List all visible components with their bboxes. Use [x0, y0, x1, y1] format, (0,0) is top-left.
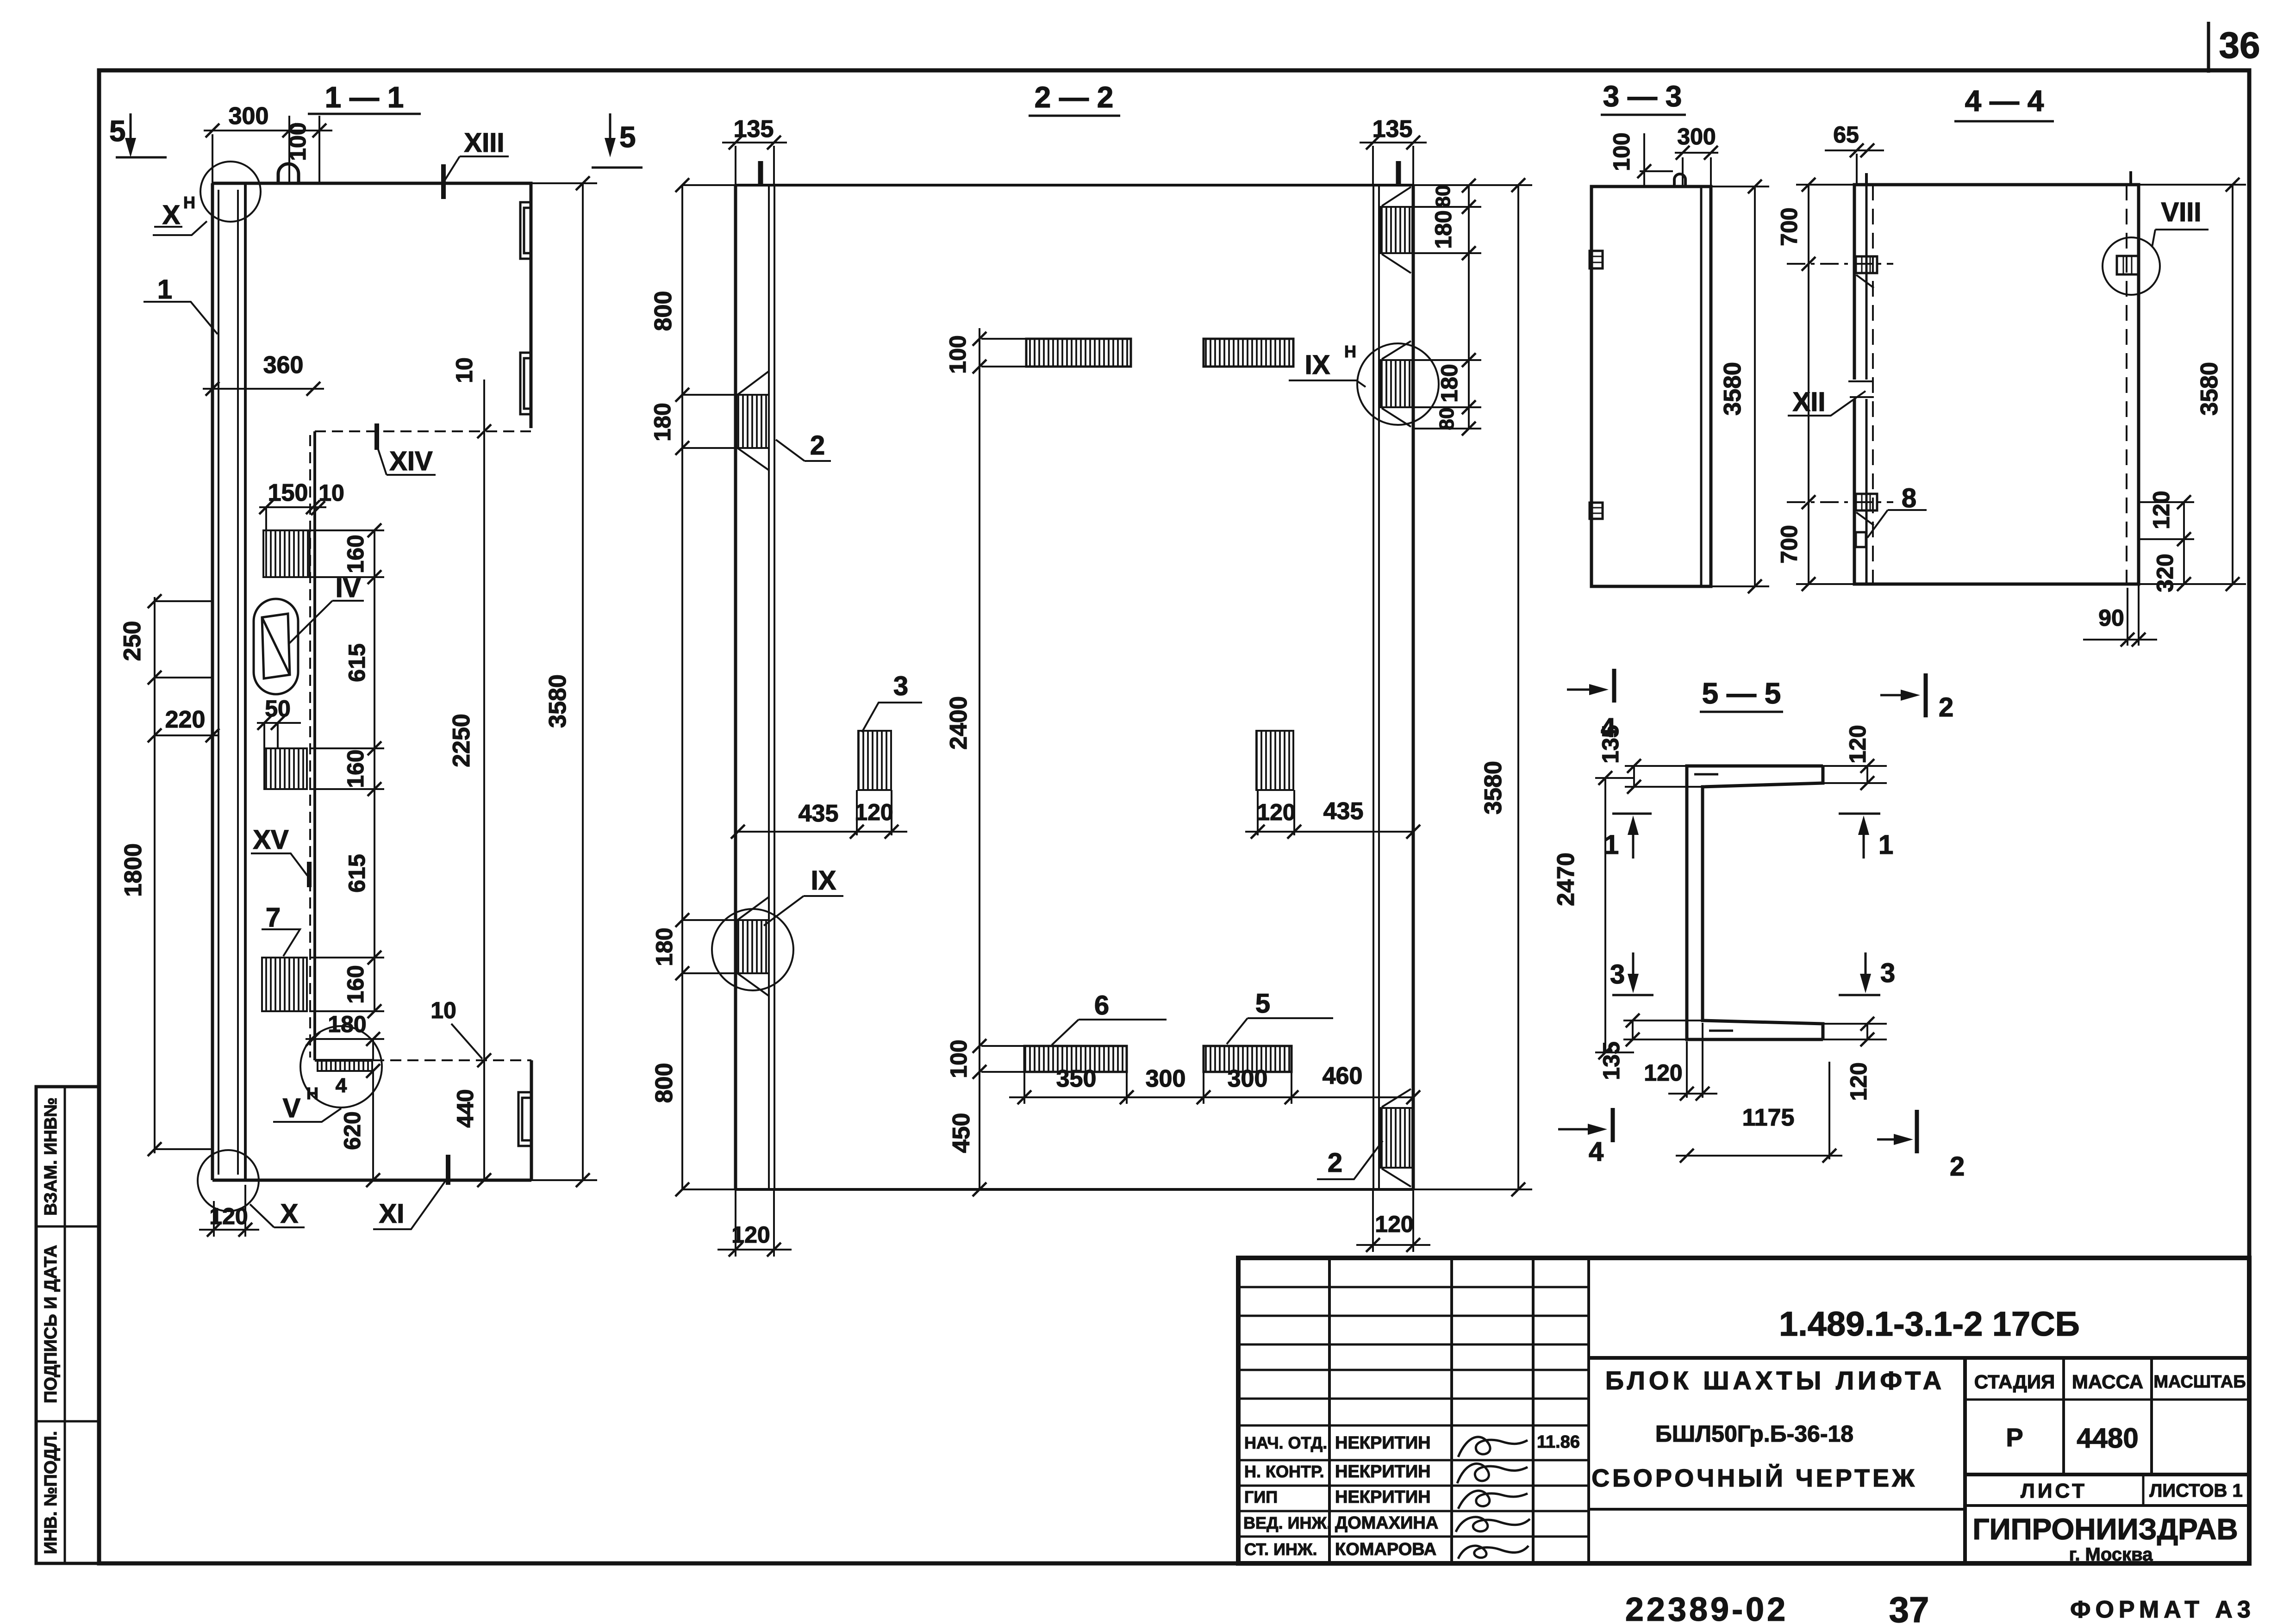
svg-text:10: 10: [430, 997, 456, 1023]
svg-text:IX: IX: [1305, 350, 1330, 380]
svg-text:XIV: XIV: [389, 446, 433, 476]
svg-text:10: 10: [318, 480, 344, 506]
svg-text:5: 5: [619, 120, 636, 154]
svg-text:435: 435: [1323, 798, 1364, 825]
svg-text:2400: 2400: [945, 696, 972, 750]
svg-text:СТАДИЯ: СТАДИЯ: [1974, 1371, 2055, 1393]
svg-text:6: 6: [1094, 990, 1109, 1020]
svg-text:80: 80: [1435, 408, 1458, 430]
svg-text:1175: 1175: [1742, 1104, 1795, 1131]
svg-text:2470: 2470: [1553, 852, 1579, 906]
svg-text:120: 120: [209, 1203, 248, 1229]
svg-text:120: 120: [731, 1222, 770, 1248]
svg-text:100: 100: [946, 1039, 972, 1078]
svg-text:300: 300: [1228, 1065, 1268, 1092]
svg-text:320: 320: [2152, 554, 2178, 592]
svg-text:37: 37: [1889, 1589, 1929, 1624]
svg-text:5: 5: [109, 114, 126, 148]
svg-text:120: 120: [1375, 1211, 1413, 1237]
svg-text:XI: XI: [379, 1199, 405, 1229]
svg-text:3 — 3: 3 — 3: [1603, 80, 1682, 113]
svg-text:100: 100: [1609, 132, 1635, 171]
svg-text:5 — 5: 5 — 5: [1702, 677, 1781, 710]
svg-text:7: 7: [266, 902, 281, 933]
svg-text:2 — 2: 2 — 2: [1035, 81, 1114, 114]
svg-text:350: 350: [1056, 1065, 1097, 1092]
svg-text:2: 2: [1939, 692, 1953, 722]
svg-text:460: 460: [1323, 1063, 1363, 1089]
svg-text:НЕКРИТИН: НЕКРИТИН: [1335, 1487, 1431, 1507]
svg-text:700: 700: [1776, 207, 1802, 246]
svg-text:180: 180: [328, 1011, 366, 1037]
svg-text:2: 2: [1328, 1148, 1342, 1178]
svg-text:50: 50: [265, 696, 291, 722]
svg-text:4: 4: [1601, 713, 1616, 743]
svg-text:ГИПРОНИИЗДРАВ: ГИПРОНИИЗДРАВ: [1972, 1512, 2238, 1546]
svg-text:800: 800: [650, 291, 677, 331]
svg-text:VIII: VIII: [2161, 197, 2201, 227]
svg-text:СТ. ИНЖ.: СТ. ИНЖ.: [1244, 1540, 1317, 1559]
svg-text:615: 615: [344, 854, 370, 892]
svg-text:360: 360: [263, 352, 304, 379]
svg-text:Н: Н: [183, 193, 195, 212]
svg-text:150: 150: [268, 479, 308, 506]
svg-text:V: V: [283, 1093, 301, 1123]
svg-text:НЕКРИТИН: НЕКРИТИН: [1335, 1462, 1431, 1481]
svg-text:СБОРОЧНЫЙ ЧЕРТЕЖ: СБОРОЧНЫЙ ЧЕРТЕЖ: [1591, 1464, 1917, 1492]
svg-text:X: X: [281, 1199, 299, 1229]
svg-text:НАЧ. ОТД.: НАЧ. ОТД.: [1244, 1433, 1327, 1452]
svg-text:4: 4: [336, 1074, 347, 1097]
svg-text:160: 160: [343, 535, 368, 573]
svg-text:100: 100: [945, 335, 971, 373]
svg-text:440: 440: [452, 1089, 478, 1127]
svg-text:IX: IX: [811, 865, 836, 896]
svg-text:300: 300: [1677, 124, 1716, 149]
svg-text:БШЛ50Гр.Б-36-18: БШЛ50Гр.Б-36-18: [1655, 1421, 1853, 1447]
svg-text:1800: 1800: [120, 843, 147, 897]
svg-text:3580: 3580: [2196, 362, 2223, 416]
svg-text:г. Москва: г. Москва: [2069, 1544, 2153, 1565]
svg-text:2250: 2250: [448, 714, 475, 767]
svg-text:36: 36: [2219, 25, 2260, 66]
svg-text:X: X: [162, 200, 181, 230]
svg-text:22389-02: 22389-02: [1625, 1591, 1788, 1624]
svg-text:ПОДПИСЬ И ДАТА: ПОДПИСЬ И ДАТА: [41, 1245, 61, 1403]
svg-text:XIII: XIII: [464, 128, 504, 158]
svg-text:120: 120: [1257, 799, 1295, 825]
svg-text:1: 1: [1878, 830, 1893, 860]
svg-text:3: 3: [1610, 959, 1625, 989]
svg-text:120: 120: [855, 799, 893, 825]
svg-text:615: 615: [344, 643, 370, 682]
svg-text:300: 300: [1146, 1065, 1186, 1092]
svg-text:80: 80: [1432, 185, 1454, 208]
svg-text:Н. КОНТР.: Н. КОНТР.: [1244, 1462, 1324, 1481]
svg-text:100: 100: [285, 122, 311, 161]
svg-text:ДОМАХИНА: ДОМАХИНА: [1335, 1513, 1438, 1533]
svg-text:11.86: 11.86: [1537, 1432, 1580, 1452]
svg-text:700: 700: [1776, 525, 1802, 563]
svg-text:90: 90: [2098, 605, 2124, 631]
svg-text:4 — 4: 4 — 4: [1965, 84, 2044, 118]
svg-text:135: 135: [1598, 1041, 1624, 1080]
svg-text:120: 120: [1644, 1060, 1682, 1086]
svg-text:1.489.1-3.1-2 17СБ: 1.489.1-3.1-2 17СБ: [1779, 1305, 2080, 1343]
svg-text:120: 120: [1845, 725, 1871, 763]
svg-text:БЛОК ШАХТЫ ЛИФТА: БЛОК ШАХТЫ ЛИФТА: [1605, 1366, 1945, 1395]
svg-text:2: 2: [1950, 1151, 1965, 1182]
svg-text:ФОРМАТ А3: ФОРМАТ А3: [2070, 1596, 2255, 1623]
svg-text:135: 135: [1373, 116, 1413, 143]
svg-text:3580: 3580: [1719, 362, 1746, 416]
svg-text:МАСШТАБ: МАСШТАБ: [2153, 1372, 2246, 1392]
svg-text:XII: XII: [1793, 387, 1826, 417]
svg-text:160: 160: [343, 749, 368, 788]
svg-text:1 — 1: 1 — 1: [325, 81, 404, 114]
svg-text:8: 8: [1902, 483, 1916, 513]
svg-text:4: 4: [1589, 1137, 1603, 1167]
svg-text:180: 180: [649, 403, 675, 441]
svg-text:ИНВ. №ПОДЛ.: ИНВ. №ПОДЛ.: [41, 1431, 61, 1554]
svg-text:800: 800: [651, 1063, 678, 1103]
svg-text:4480: 4480: [2077, 1423, 2138, 1454]
svg-text:10: 10: [451, 357, 477, 383]
svg-text:НЕКРИТИН: НЕКРИТИН: [1335, 1433, 1431, 1453]
svg-text:220: 220: [165, 706, 206, 733]
svg-text:МАССА: МАССА: [2072, 1371, 2143, 1393]
svg-text:120: 120: [1846, 1062, 1872, 1101]
svg-text:2: 2: [810, 430, 825, 460]
svg-text:3: 3: [893, 671, 908, 701]
svg-text:300: 300: [229, 103, 269, 130]
svg-text:ЛИСТОВ 1: ЛИСТОВ 1: [2149, 1481, 2243, 1501]
svg-text:ГИП: ГИП: [1244, 1487, 1278, 1506]
svg-text:Н: Н: [306, 1084, 318, 1103]
svg-text:ВЕД. ИНЖ.: ВЕД. ИНЖ.: [1243, 1513, 1331, 1532]
svg-text:450: 450: [948, 1113, 975, 1153]
svg-text:IV: IV: [336, 573, 361, 603]
svg-text:65: 65: [1833, 122, 1859, 148]
svg-text:Н: Н: [1344, 342, 1356, 361]
svg-text:620: 620: [339, 1111, 365, 1150]
svg-text:180: 180: [1430, 210, 1456, 249]
svg-text:3580: 3580: [1480, 761, 1507, 815]
svg-text:ВЗАМ. ИНВ№: ВЗАМ. ИНВ№: [41, 1097, 61, 1216]
svg-text:КОМАРОВА: КОМАРОВА: [1335, 1540, 1436, 1559]
svg-text:1: 1: [1604, 830, 1619, 860]
svg-text:180: 180: [1436, 364, 1462, 402]
svg-text:435: 435: [799, 800, 839, 827]
svg-text:ЛИСТ: ЛИСТ: [2021, 1480, 2087, 1502]
svg-text:120: 120: [2148, 491, 2174, 529]
svg-text:3: 3: [1880, 958, 1895, 988]
svg-text:250: 250: [119, 621, 146, 661]
svg-text:3580: 3580: [544, 674, 571, 728]
svg-text:180: 180: [651, 927, 677, 966]
svg-text:5: 5: [1255, 989, 1270, 1019]
svg-text:160: 160: [343, 965, 368, 1003]
svg-text:135: 135: [734, 116, 774, 143]
svg-text:Р: Р: [2006, 1423, 2023, 1452]
svg-text:XV: XV: [253, 825, 289, 855]
svg-text:1: 1: [157, 274, 172, 305]
